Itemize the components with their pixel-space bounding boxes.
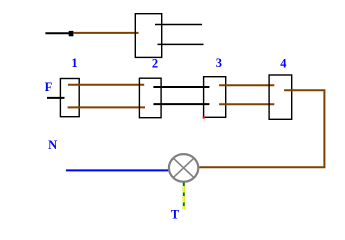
wire: black bottom, switch 2 to 3: [153, 103, 209, 105]
svg-text:F: F: [45, 80, 53, 94]
wire: earth (green/yellow dashed) below lamp: [183, 183, 185, 210]
switch 2: [139, 78, 161, 118]
switch 3: [204, 77, 226, 118]
svg-text:3: 3: [216, 56, 222, 70]
svg-text:1: 1: [71, 56, 77, 70]
wire: brown bottom, switch 1 to 2: [68, 106, 145, 108]
lamp (circle with X): [169, 154, 198, 182]
svg-text:4: 4: [280, 56, 287, 70]
wire: brown feed to switch 2 detail: [73, 32, 138, 34]
switch 1: [60, 79, 79, 117]
junction terminal square: [69, 31, 74, 36]
svg-text:N: N: [48, 138, 57, 152]
wire: brown lamp feed from switch 4 (right, down, left to lamp): [199, 90, 324, 167]
switch 2 (top detail box): [135, 14, 161, 58]
wire: bottom output of detail box (black): [158, 43, 204, 45]
switch 4: [269, 75, 292, 119]
wire: brown bottom, switch 3 to 4: [219, 103, 274, 105]
wire: F into switch 1 (black): [47, 97, 65, 99]
red mark at switch 3 corner: [203, 116, 205, 118]
wire: brown top, switch 3 to 4: [219, 84, 274, 86]
wire: neutral (blue) to lamp: [66, 169, 169, 171]
svg-text:2: 2: [152, 56, 158, 70]
wire: top output of detail box (black): [155, 24, 202, 26]
wire: black top, switch 2 to 3: [153, 86, 209, 88]
svg-text:T: T: [171, 207, 180, 221]
wire: phase feed (black) top left: [45, 32, 69, 34]
wire: brown top, switch 1 to 2: [68, 84, 144, 86]
